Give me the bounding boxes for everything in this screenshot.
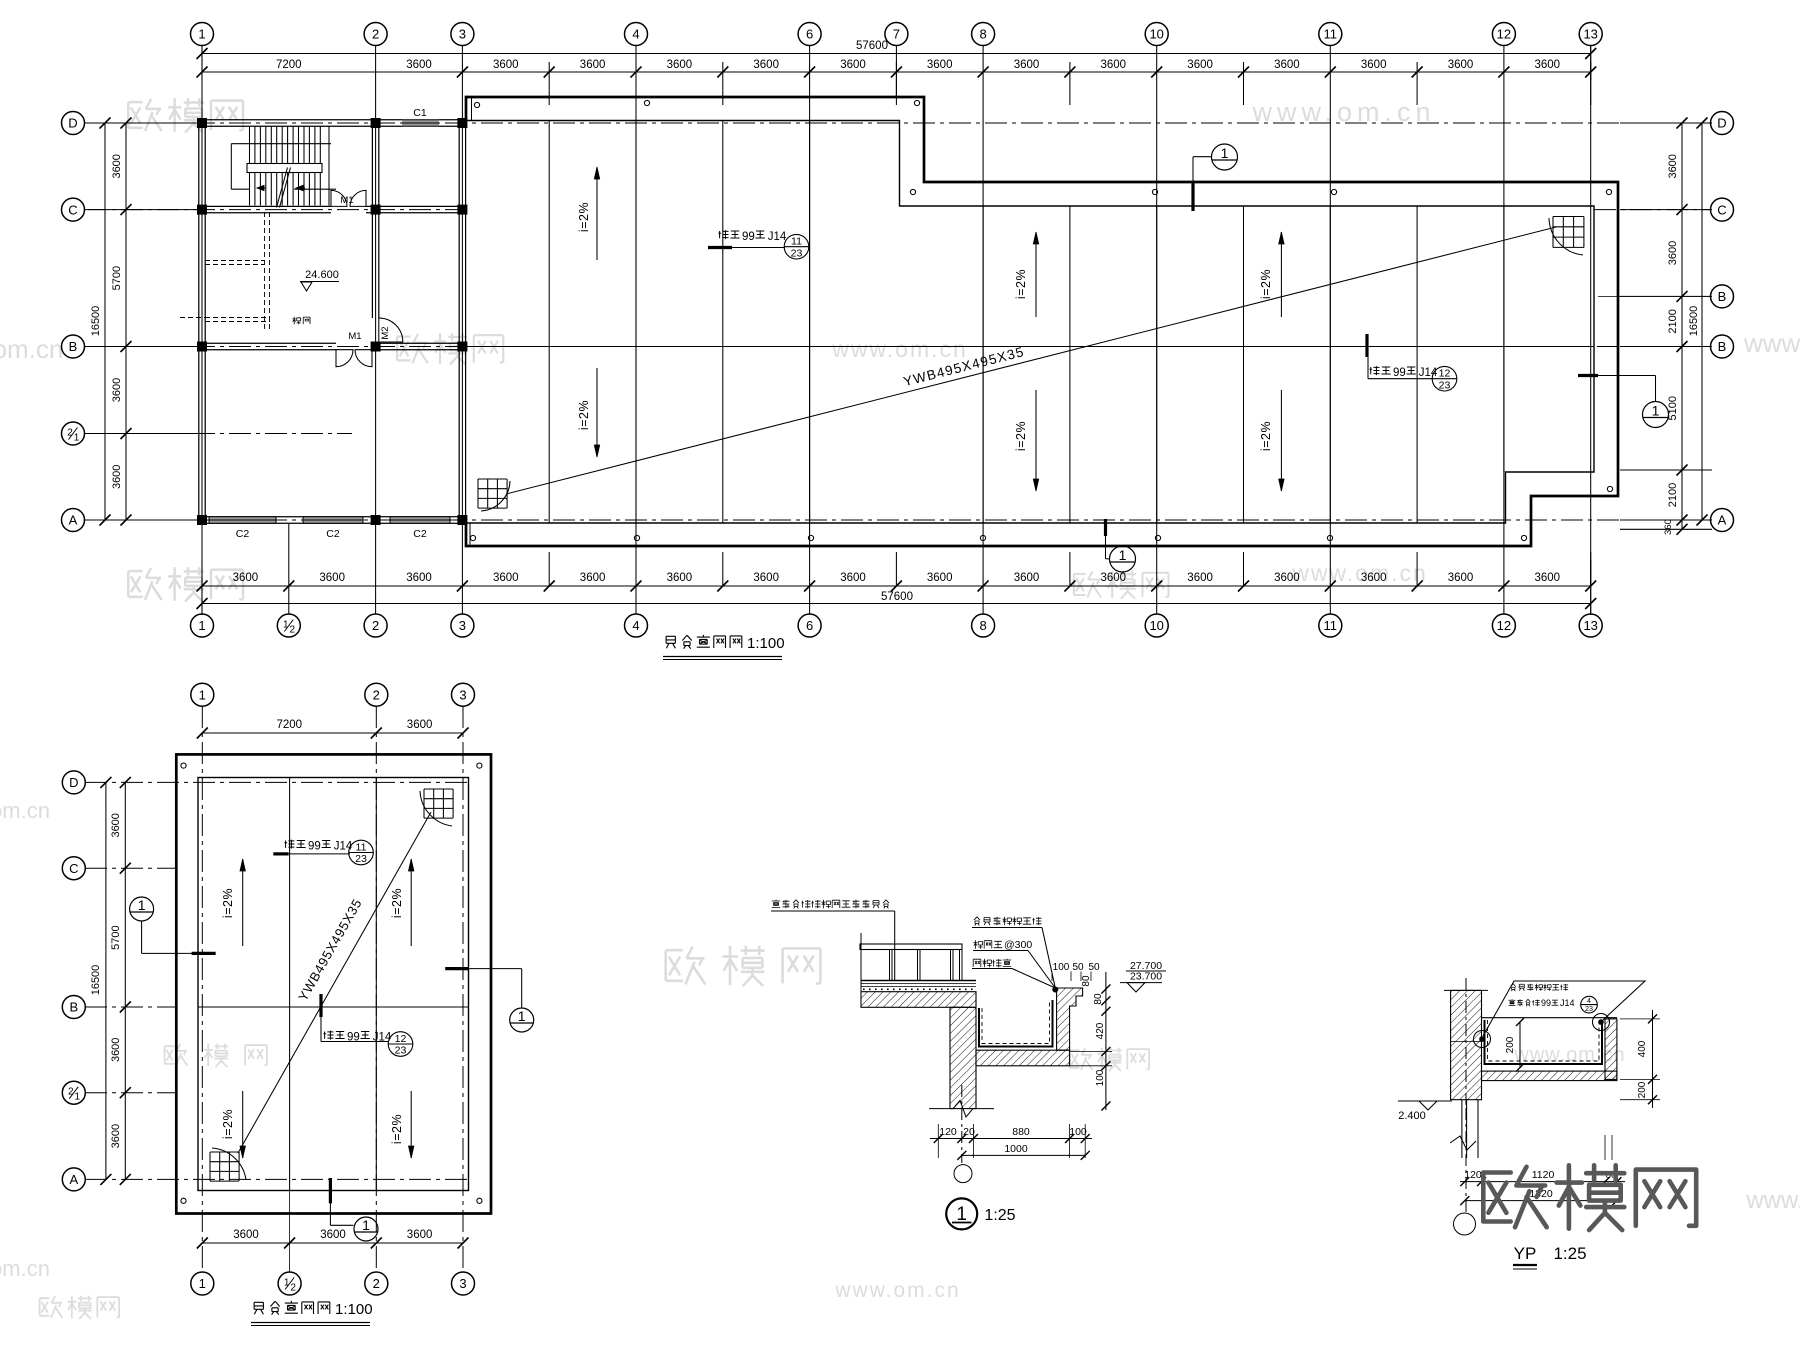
small plan bubbles bottom [191, 1272, 214, 1295]
svg-text:3600: 3600 [580, 572, 606, 584]
svg-text:D: D [69, 775, 78, 790]
d1 title [946, 1198, 977, 1229]
big om watermark bottom right [1483, 1165, 1696, 1230]
big roof outer parapet [466, 97, 1618, 546]
small plan grid lines vertical [201, 706, 203, 1272]
yp dim 200 inside [1519, 1022, 1521, 1068]
watermark om logo mid-left [397, 333, 503, 365]
top plan title [666, 635, 742, 649]
svg-text:99: 99 [742, 231, 755, 243]
svg-text:11: 11 [791, 236, 802, 248]
svg-text:1: 1 [198, 27, 205, 42]
svg-text:23: 23 [1439, 379, 1451, 391]
detail callout 11/23 [708, 246, 732, 249]
watermark om logo in small plan [165, 1044, 267, 1067]
label machine room [292, 317, 310, 325]
svg-text:i=2%: i=2% [390, 888, 404, 918]
small plan diagonal [238, 812, 431, 1153]
grid line B-upper right [1598, 295, 1712, 297]
d1 leader note roof construction [772, 900, 889, 909]
svg-text:3600: 3600 [840, 59, 866, 71]
yp gutter bottom slab (hatched) [1482, 1071, 1617, 1081]
bottom dim total line [202, 603, 1591, 605]
svg-text:i=2%: i=2% [1014, 421, 1028, 451]
watermark om logo bottom-left of plan [128, 567, 243, 601]
svg-text:20: 20 [963, 1126, 975, 1138]
small plan corner circles [181, 763, 186, 768]
svg-text:3: 3 [459, 1276, 466, 1291]
top plan: grid bubbles top row [191, 23, 214, 46]
svg-text:B: B [1718, 339, 1727, 354]
svg-text:3600: 3600 [233, 572, 259, 584]
d1 gutter right wall (hatched) [1057, 988, 1083, 1050]
svg-text:1: 1 [74, 433, 80, 444]
svg-text:3600: 3600 [406, 59, 432, 71]
svg-text:1: 1 [138, 897, 146, 913]
svg-text:1: 1 [1652, 403, 1660, 419]
svg-text:3600: 3600 [407, 719, 433, 731]
stairwell right boundary [328, 126, 330, 206]
d1 axis line and circle [961, 1085, 963, 1163]
small plan section mark right [445, 967, 468, 970]
svg-text:80: 80 [1081, 975, 1092, 987]
svg-text:i=2%: i=2% [221, 1109, 235, 1139]
svg-text:3600: 3600 [111, 465, 123, 489]
svg-text:23: 23 [791, 247, 803, 259]
yp leader lines [1483, 981, 1645, 1036]
svg-text:B: B [69, 1000, 78, 1015]
svg-text:3600: 3600 [320, 1229, 346, 1241]
svg-text:99: 99 [347, 1032, 360, 1044]
svg-text:3600: 3600 [753, 59, 779, 71]
svg-text:200: 200 [1637, 1081, 1648, 1098]
yp wall below break [1461, 1100, 1463, 1158]
svg-text:23: 23 [355, 853, 367, 865]
svg-text:11: 11 [1324, 618, 1338, 633]
svg-text:200: 200 [1505, 1036, 1516, 1053]
svg-text:1: 1 [1221, 145, 1229, 161]
svg-text:8: 8 [979, 27, 986, 42]
watermark url above bottom dims [1074, 571, 1169, 599]
yp level 2.400 [1398, 1100, 1452, 1102]
small plan left dims [105, 782, 107, 1179]
svg-text:D: D [68, 116, 77, 131]
svg-text:3: 3 [459, 27, 466, 42]
svg-text:3600: 3600 [1361, 572, 1387, 584]
detail callout 12/23 [1365, 334, 1368, 357]
svg-text:3600: 3600 [1535, 59, 1561, 71]
svg-text:M1: M1 [340, 195, 353, 206]
left block wall B left part [199, 342, 336, 344]
svg-text:23: 23 [1585, 1005, 1593, 1013]
svg-text:4: 4 [1587, 997, 1591, 1005]
small plan top dims [202, 732, 463, 734]
svg-text:3600: 3600 [927, 572, 953, 584]
svg-text:om.cn: om.cn [0, 798, 50, 823]
svg-text:3600: 3600 [1014, 59, 1040, 71]
door M2 [379, 318, 403, 342]
svg-text:10: 10 [1149, 618, 1163, 633]
top plan: grid bubbles bottom row [191, 614, 214, 637]
svg-text:3600: 3600 [1187, 572, 1213, 584]
svg-text:16500: 16500 [1688, 306, 1700, 337]
svg-text:M1: M1 [348, 331, 361, 342]
svg-text:99: 99 [308, 841, 321, 853]
svg-text:A: A [69, 513, 78, 528]
yp gutter top edge [1482, 1017, 1618, 1019]
small plan outer parapet [176, 754, 491, 1213]
svg-text:880: 880 [1012, 1126, 1030, 1138]
small plan callout 11/23 [273, 852, 288, 855]
svg-text:@300: @300 [1004, 939, 1032, 951]
svg-text:2100: 2100 [1667, 309, 1679, 333]
svg-text:i=2%: i=2% [1259, 269, 1273, 299]
svg-text:7200: 7200 [277, 719, 303, 731]
svg-text:3600: 3600 [493, 59, 519, 71]
yp leader method text [1509, 999, 1540, 1006]
svg-text:2: 2 [372, 27, 379, 42]
slope arrows i=2% big roof [596, 167, 598, 260]
gutter diagonal YWB495X495X35 [506, 227, 1556, 494]
small plan section mark bottom [329, 1178, 332, 1203]
grid line B [85, 346, 1712, 348]
svg-text:1:100: 1:100 [335, 1301, 373, 1318]
svg-text:24.600: 24.600 [305, 269, 339, 281]
svg-text:3600: 3600 [110, 1124, 122, 1148]
d1 wall (hatched) [950, 1007, 976, 1108]
svg-text:3600: 3600 [1667, 154, 1679, 178]
svg-text:J14: J14 [1419, 367, 1438, 379]
svg-text:i=2%: i=2% [577, 400, 591, 430]
svg-text:i=2%: i=2% [1014, 269, 1028, 299]
svg-text:3600: 3600 [753, 572, 779, 584]
svg-text:99: 99 [1541, 998, 1551, 1008]
svg-text:57600: 57600 [881, 591, 913, 603]
svg-text:A: A [1718, 513, 1727, 528]
svg-text:1: 1 [199, 1276, 206, 1291]
svg-text:3600: 3600 [1101, 59, 1127, 71]
svg-text:12: 12 [1497, 27, 1511, 42]
top plan: vertical grid lines [201, 46, 203, 614]
svg-text:3600: 3600 [1361, 59, 1387, 71]
svg-text:3600: 3600 [667, 572, 693, 584]
svg-text:12: 12 [1439, 368, 1451, 380]
top dim segment line [202, 71, 1591, 73]
small plan bubbles top [191, 683, 214, 706]
big roof parapet vent circles [474, 102, 479, 107]
small plan slope arrows [242, 859, 244, 946]
svg-text:360: 360 [1663, 519, 1674, 535]
svg-text:J14: J14 [768, 231, 787, 243]
watermark om logo right of small plan [666, 946, 821, 987]
grid line C [85, 209, 466, 211]
svg-text:2: 2 [290, 1283, 296, 1294]
svg-text:B: B [69, 339, 78, 354]
left block wall C [199, 205, 331, 207]
d1 bottom dims [937, 1124, 939, 1158]
rain outlet fan top-right [1553, 217, 1584, 248]
yp leader sealant text [1511, 984, 1568, 991]
svg-text:M2: M2 [380, 326, 391, 339]
small plan rain outlet fan top-right [424, 789, 453, 818]
small plan grid lines horizontal [85, 867, 176, 869]
left block wall A with windows C2 [199, 516, 466, 518]
svg-text:3600: 3600 [111, 154, 123, 178]
svg-text:57600: 57600 [856, 40, 888, 52]
left dim chain [104, 123, 106, 520]
small plan ridge line B [198, 1006, 469, 1008]
svg-text:13: 13 [1583, 618, 1597, 633]
watermark om logo bottom-left corner [40, 1296, 120, 1319]
svg-text:3600: 3600 [1014, 572, 1040, 584]
svg-text:C1: C1 [413, 107, 427, 119]
big roof panel joints [548, 121, 550, 524]
svg-text:www.om.cn: www.om.cn [831, 336, 968, 362]
svg-text:D: D [1717, 116, 1726, 131]
big roof ridge line B [466, 346, 1594, 348]
svg-text:400: 400 [1637, 1040, 1648, 1057]
svg-text:3600: 3600 [580, 59, 606, 71]
svg-text:3600: 3600 [1187, 59, 1213, 71]
svg-text:A: A [69, 1172, 78, 1187]
svg-text:3600: 3600 [407, 1229, 433, 1241]
svg-text:C2: C2 [236, 528, 250, 540]
svg-text:1000: 1000 [1004, 1143, 1028, 1155]
svg-text:www.om.cn: www.om.cn [834, 1279, 960, 1302]
yp right dims [1620, 1018, 1660, 1020]
svg-text:i=2%: i=2% [1259, 421, 1273, 451]
right dim chain [1681, 123, 1683, 530]
section mark 1 top [1191, 182, 1194, 211]
door M1 at B (double swing down) [336, 350, 353, 367]
svg-text:16500: 16500 [90, 306, 102, 337]
svg-text:C2: C2 [413, 528, 427, 540]
svg-text:1:25: 1:25 [984, 1207, 1015, 1224]
small plan bubbles left [62, 771, 85, 794]
svg-text:2: 2 [373, 1276, 380, 1291]
svg-text:C2: C2 [326, 528, 340, 540]
svg-text:C: C [1717, 202, 1726, 217]
svg-text:3600: 3600 [1535, 572, 1561, 584]
d1 gutter membrane [979, 1000, 1053, 1047]
svg-text:om.cn: om.cn [0, 334, 63, 364]
top plan: grid bubbles left [62, 112, 85, 135]
d1 roof layers [861, 980, 976, 982]
hidden dashed equipment lines [264, 212, 266, 330]
svg-text:J14: J14 [1560, 998, 1575, 1008]
svg-text:5700: 5700 [111, 266, 123, 290]
small plan callout 12/23 [319, 994, 322, 1017]
svg-text:www.: www. [1745, 1187, 1800, 1214]
left block wall grid3 [458, 120, 460, 523]
svg-text:4: 4 [632, 27, 639, 42]
svg-text:100: 100 [1053, 962, 1070, 973]
svg-text:16500: 16500 [90, 965, 102, 996]
stair treads [250, 126, 321, 206]
interior wall grid2 D to C [371, 126, 373, 206]
d1 leader sealant [974, 917, 1042, 926]
d1 right dim chain [1105, 972, 1107, 1110]
left block wall grid1 [198, 120, 200, 523]
d1 leader metal strip [973, 959, 1011, 968]
svg-text:3600: 3600 [840, 572, 866, 584]
svg-text:3600: 3600 [110, 1038, 122, 1062]
yp leader circles [1474, 1031, 1491, 1048]
svg-text:5700: 5700 [110, 925, 122, 949]
svg-text:50: 50 [1072, 962, 1084, 973]
svg-text:1:100: 1:100 [747, 635, 785, 652]
grid line 2/1 [85, 433, 352, 435]
svg-text:1: 1 [198, 618, 205, 633]
svg-text:1: 1 [199, 687, 206, 702]
left block wall B right part [372, 342, 466, 344]
big roof inner edge [466, 121, 1594, 524]
yp bottom dims [1604, 1135, 1606, 1160]
svg-text:2: 2 [373, 687, 380, 702]
svg-text:11: 11 [1324, 27, 1338, 42]
svg-text:420: 420 [1095, 1022, 1106, 1039]
svg-text:3600: 3600 [1448, 572, 1474, 584]
small plan title [254, 1301, 330, 1315]
top plan: grid bubbles right [1711, 112, 1734, 135]
svg-text:1:25: 1:25 [1553, 1244, 1586, 1263]
stair handrail [247, 164, 322, 173]
svg-text:3: 3 [459, 618, 466, 633]
small plan panel joints [289, 778, 291, 1191]
grid line D [85, 122, 1712, 124]
svg-text:i=2%: i=2% [577, 202, 591, 232]
svg-text:23: 23 [395, 1045, 407, 1057]
svg-text:10: 10 [1149, 27, 1163, 42]
yp axis circle [1465, 1108, 1467, 1212]
small plan bottom dims [202, 1242, 463, 1244]
svg-text:3600: 3600 [1274, 59, 1300, 71]
window C1 [402, 120, 439, 126]
svg-text:3600: 3600 [927, 59, 953, 71]
yp gutter membrane [1485, 1020, 1603, 1064]
section mark 1 right [1578, 374, 1598, 377]
stair direction arrows [257, 185, 266, 190]
svg-text:3600: 3600 [406, 572, 432, 584]
svg-text:1: 1 [362, 1217, 370, 1233]
svg-text:3600: 3600 [1101, 572, 1127, 584]
svg-text:i=2%: i=2% [390, 1114, 404, 1144]
svg-text:8: 8 [979, 618, 986, 633]
stair landing boundary [231, 143, 331, 145]
d1 gutter bottom slab (hatched) [976, 1050, 1070, 1066]
svg-text:6: 6 [806, 618, 813, 633]
d1 leader cement nail [974, 940, 1003, 948]
svg-text:2100: 2100 [1667, 483, 1679, 507]
yp wall (hatched) [1451, 990, 1482, 1099]
svg-text:3600: 3600 [493, 572, 519, 584]
svg-text:3600: 3600 [667, 59, 693, 71]
svg-text:50: 50 [1088, 962, 1100, 973]
columns left block [197, 118, 207, 128]
svg-text:6: 6 [806, 27, 813, 42]
svg-text:80: 80 [1093, 993, 1104, 1005]
grid line A [85, 519, 1712, 521]
svg-text:2.400: 2.400 [1398, 1110, 1426, 1122]
svg-text:13: 13 [1583, 27, 1597, 42]
svg-text:100: 100 [1095, 1069, 1106, 1086]
svg-text:3600: 3600 [233, 1229, 259, 1241]
svg-text:B: B [1718, 289, 1727, 304]
svg-text:www.: www. [1743, 328, 1800, 358]
d1 railing [860, 933, 862, 992]
stair break line [277, 168, 288, 208]
svg-text:1120: 1120 [1532, 1169, 1555, 1181]
svg-text:7200: 7200 [276, 59, 302, 71]
svg-text:www.om.cn: www.om.cn [1291, 560, 1428, 586]
svg-text:12: 12 [1497, 618, 1511, 633]
yp gutter right wall (hatched) [1605, 1019, 1617, 1080]
svg-text:2: 2 [290, 625, 296, 636]
svg-text:1: 1 [75, 1092, 81, 1103]
svg-text:C: C [69, 861, 78, 876]
d1 top slab (hatched) [861, 992, 976, 1008]
svg-text:om.cn: om.cn [0, 1256, 50, 1281]
svg-text:i=2%: i=2% [221, 888, 235, 918]
svg-text:120: 120 [1464, 1169, 1482, 1181]
svg-text:7: 7 [893, 27, 900, 42]
left block wall D [199, 119, 402, 121]
small plan section mark left [130, 897, 154, 921]
section mark 1 bottom [1104, 519, 1107, 536]
d1 wall break bottom [929, 1101, 994, 1118]
watermark om logo top-left [128, 98, 243, 132]
rain outlet fan bottom-left [478, 479, 507, 508]
small plan inner edge [198, 778, 469, 1191]
svg-text:3600: 3600 [1448, 59, 1474, 71]
svg-text:4: 4 [632, 618, 639, 633]
door at C (double swing) [331, 190, 347, 206]
svg-text:1: 1 [518, 1008, 526, 1024]
svg-text:3600: 3600 [111, 378, 123, 402]
watermark om logo in detail dims [1070, 1048, 1150, 1071]
svg-text:1: 1 [1119, 547, 1127, 563]
svg-text:99: 99 [1393, 367, 1406, 379]
svg-text:3600: 3600 [110, 813, 122, 837]
svg-text:YP: YP [1514, 1244, 1537, 1263]
bottom dim segment line [202, 585, 1591, 587]
svg-text:3600: 3600 [319, 572, 345, 584]
svg-text:3600: 3600 [1274, 572, 1300, 584]
svg-text:12: 12 [395, 1033, 407, 1045]
svg-text:3: 3 [459, 687, 466, 702]
top plan: half-grid extension stubs [548, 62, 550, 105]
svg-text:C: C [68, 202, 77, 217]
svg-text:100: 100 [1069, 1126, 1087, 1138]
interior wall grid2 C to door M2 [371, 213, 373, 318]
svg-text:23.700: 23.700 [1130, 971, 1162, 983]
svg-text:120: 120 [939, 1126, 957, 1138]
svg-text:3600: 3600 [1667, 241, 1679, 265]
small plan rain outlet fan bottom-left [210, 1152, 239, 1181]
svg-text:2: 2 [372, 618, 379, 633]
top dim total line [202, 53, 1591, 55]
svg-text:11: 11 [356, 841, 367, 853]
